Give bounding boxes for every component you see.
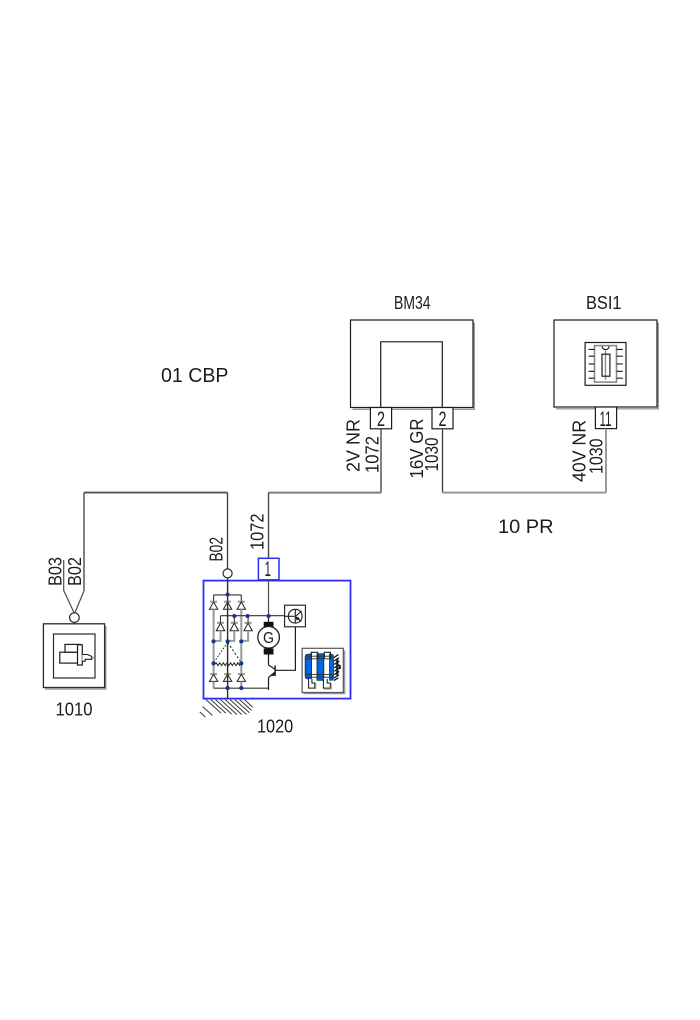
- wire B02 harness run (1010 to 1020): [84, 492, 228, 494]
- phase column left (to bottom diodes): [213, 641, 215, 674]
- fuse element centre line: [605, 351, 607, 380]
- diode D9: [237, 674, 245, 681]
- generator bottom lead: [268, 655, 270, 666]
- fuse element body: [602, 354, 610, 376]
- regulator K box: [285, 605, 306, 627]
- regulator lead: [285, 615, 295, 617]
- middle diode elbows to phase nodes: [214, 631, 249, 641]
- icon tie bars: [306, 656, 333, 677]
- svg-text:2: 2: [377, 408, 385, 431]
- stubs from top rail to top diodes: [214, 595, 242, 601]
- icon middle blue band: [317, 654, 324, 680]
- phase column right (top): [240, 609, 242, 641]
- 1010 box shadow: [45, 626, 106, 689]
- stubs from excitation rail to middle diodes: [221, 616, 249, 623]
- svg-text:B03: B03: [46, 557, 66, 586]
- node circle at alternator input: [223, 569, 232, 578]
- starter icon body: [60, 652, 78, 663]
- icon right blue band: [330, 654, 334, 680]
- icon fan hatch: [334, 655, 340, 681]
- generator G top lead: [268, 616, 270, 622]
- fuse clip arc: [602, 346, 609, 349]
- ECU BM34 outline: [353, 323, 475, 410]
- icon foot shadows: [316, 683, 331, 689]
- icon fan hub: [336, 659, 338, 675]
- diode D5: [230, 623, 238, 631]
- svg-text:1030: 1030: [422, 438, 442, 472]
- wire 1030 harness run: [443, 492, 607, 494]
- alternator 1020 blue outline: [204, 581, 351, 699]
- starter icon pinion nose: [82, 655, 91, 662]
- ground hatching: [200, 700, 253, 717]
- B03 leader line: [64, 560, 74, 613]
- icon foot right: [323, 679, 330, 688]
- regulator circle: [288, 609, 302, 623]
- fuse pins right: [617, 349, 623, 378]
- icon left blue cap: [305, 654, 311, 679]
- svg-text:1072: 1072: [248, 514, 268, 551]
- svg-text:2: 2: [439, 408, 447, 431]
- wire 1072 drop to alternator pin 1: [268, 493, 270, 559]
- BM34 pin 2 (right): [432, 408, 453, 432]
- svg-text:1020: 1020: [257, 716, 293, 737]
- internal wire from pin 1 down: [268, 580, 270, 616]
- fuse symbol inside BSI1: [585, 343, 626, 386]
- icon fan nub: [339, 665, 341, 669]
- node circle at starter 1010: [70, 613, 80, 623]
- junction dots: [211, 592, 270, 690]
- starter motor 1010: [43, 624, 105, 689]
- icon top bracket right: [324, 652, 330, 658]
- regulator bottom lead: [275, 627, 295, 671]
- svg-text:2V NR: 2V NR: [344, 419, 364, 472]
- svg-text:G: G: [263, 630, 274, 647]
- alternator icon: [305, 652, 341, 689]
- diode D3: [237, 602, 245, 610]
- diode D4: [216, 623, 224, 631]
- starter icon end plate: [78, 645, 83, 665]
- wire stub from BSI1 pin 11: [605, 429, 607, 493]
- alternator pin 1 box: [258, 558, 279, 580]
- regulator K glyph: [295, 610, 301, 623]
- rectifier top rail: [214, 594, 242, 596]
- wire 1072 harness run: [269, 492, 382, 494]
- diode D2: [223, 602, 231, 610]
- svg-text:1: 1: [265, 558, 272, 581]
- diode D8: [223, 674, 231, 681]
- generator brush block bottom: [264, 648, 274, 654]
- svg-text:B02: B02: [65, 557, 85, 586]
- diode D1: [209, 602, 217, 610]
- earth column (main vertical through bridge): [227, 578, 229, 699]
- svg-text:1072: 1072: [363, 436, 383, 473]
- stator winding triangle: [214, 643, 242, 666]
- starter icon solenoid: [65, 644, 80, 652]
- svg-text:01 CBP: 01 CBP: [161, 365, 229, 387]
- fuse pins left: [589, 349, 595, 378]
- battery icon box shadow: [304, 651, 345, 694]
- alternator 1020: [200, 558, 351, 717]
- svg-text:1010: 1010: [56, 700, 93, 720]
- diode D7: [209, 674, 217, 681]
- svg-text:BM34: BM34: [394, 293, 431, 313]
- excitation rail: [221, 615, 285, 617]
- B02 leader slant: [75, 591, 84, 613]
- wire stub from BM34 pin 2 left: [380, 429, 382, 493]
- 1010 inner box: [54, 634, 96, 678]
- phase column left (top): [213, 609, 215, 641]
- wire stub from BM34 pin 2 right: [442, 429, 444, 493]
- battery icon box: [302, 648, 343, 692]
- phase column right (to bottom diodes): [240, 641, 242, 674]
- bottom rail: [214, 687, 269, 689]
- 1010 outer box: [43, 624, 104, 688]
- transistor Q1: [269, 665, 276, 690]
- icon top bracket left: [311, 652, 318, 658]
- wire B02 vertical at alternator: [227, 493, 229, 569]
- BM34 pin 2 (left): [370, 408, 391, 432]
- svg-text:1030: 1030: [587, 439, 607, 475]
- BM34 inner notch: [381, 342, 443, 408]
- generator brush block top: [264, 622, 274, 628]
- ECU BSI1 outline: [556, 323, 658, 409]
- icon foot left: [309, 679, 315, 688]
- svg-text:10 PR: 10 PR: [498, 516, 554, 538]
- diode D6: [244, 623, 252, 631]
- svg-text:11: 11: [600, 408, 612, 431]
- bottom columns to rail: [214, 681, 242, 688]
- BSI1 pin 11: [595, 407, 616, 431]
- svg-text:BSI1: BSI1: [586, 293, 622, 313]
- svg-text:B02: B02: [207, 537, 227, 562]
- generator G circle: [258, 627, 280, 649]
- wire B02 vertical at starter: [83, 493, 85, 591]
